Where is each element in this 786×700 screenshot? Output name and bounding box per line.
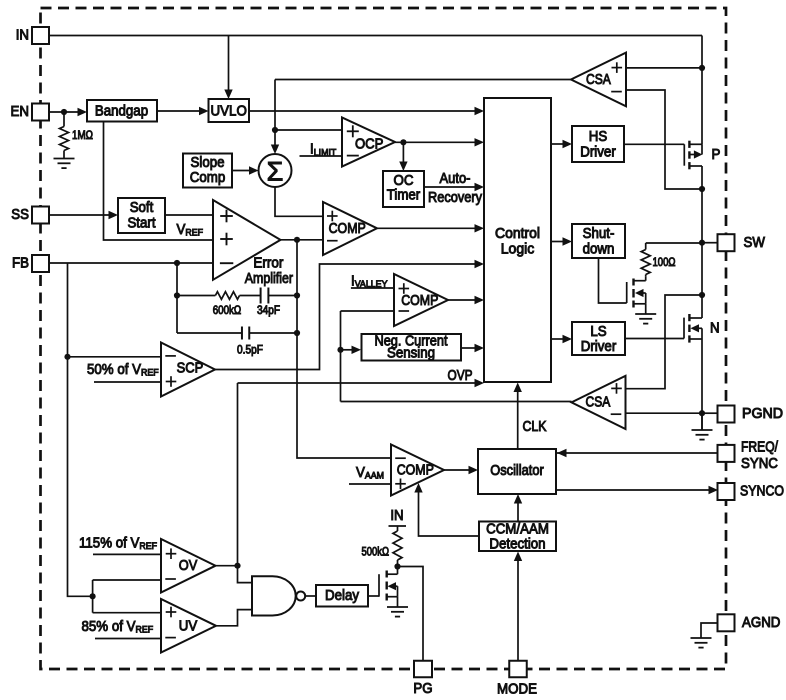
svg-text:LIMIT: LIMIT bbox=[314, 147, 337, 158]
svg-text:Amplifier: Amplifier bbox=[245, 271, 293, 287]
svg-text:AGND: AGND bbox=[742, 615, 780, 631]
svg-text:Start: Start bbox=[127, 215, 155, 231]
svg-text:REF: REF bbox=[139, 541, 157, 552]
svg-text:Timer: Timer bbox=[387, 188, 421, 204]
svg-text:down: down bbox=[583, 241, 615, 257]
svg-text:COMP: COMP bbox=[329, 221, 366, 237]
svg-text:Auto-: Auto- bbox=[440, 171, 471, 187]
svg-text:MODE: MODE bbox=[497, 682, 537, 698]
svg-text:Bandgap: Bandgap bbox=[95, 103, 148, 119]
svg-text:PGND: PGND bbox=[742, 406, 783, 422]
svg-text:SCP: SCP bbox=[177, 361, 204, 377]
svg-text:LS: LS bbox=[590, 324, 606, 340]
svg-text:SYNC: SYNC bbox=[741, 456, 778, 472]
svg-text:Recovery: Recovery bbox=[428, 190, 483, 206]
svg-text:CCM/AAM: CCM/AAM bbox=[486, 521, 549, 537]
svg-text:OV: OV bbox=[179, 558, 198, 574]
svg-text:50% of V: 50% of V bbox=[87, 362, 141, 378]
svg-text:Control: Control bbox=[495, 226, 540, 242]
svg-text:HS: HS bbox=[589, 129, 608, 145]
svg-text:Oscillator: Oscillator bbox=[490, 463, 544, 479]
svg-text:SW: SW bbox=[744, 235, 766, 251]
svg-text:Shut-: Shut- bbox=[583, 226, 615, 242]
svg-text:COMP: COMP bbox=[401, 293, 438, 309]
svg-text:REF: REF bbox=[185, 228, 203, 239]
svg-text:CLK: CLK bbox=[523, 419, 547, 435]
svg-text:100Ω: 100Ω bbox=[653, 257, 676, 269]
svg-text:CSA: CSA bbox=[586, 72, 611, 88]
svg-text:AAM: AAM bbox=[365, 471, 384, 482]
svg-text:34pF: 34pF bbox=[257, 305, 280, 317]
svg-text:Comp: Comp bbox=[190, 170, 226, 186]
svg-text:VALLEY: VALLEY bbox=[355, 279, 388, 290]
svg-text:115% of V: 115% of V bbox=[79, 536, 140, 552]
svg-text:Error: Error bbox=[253, 255, 283, 271]
svg-text:Detection: Detection bbox=[489, 537, 545, 553]
svg-text:SS: SS bbox=[11, 207, 29, 223]
svg-text:600kΩ: 600kΩ bbox=[213, 305, 242, 317]
svg-text:Σ: Σ bbox=[267, 157, 284, 187]
svg-text:PG: PG bbox=[413, 681, 432, 697]
svg-text:UV: UV bbox=[179, 618, 198, 634]
svg-text:0.5pF: 0.5pF bbox=[237, 345, 263, 357]
svg-text:OC: OC bbox=[394, 173, 414, 189]
svg-text:UVLO: UVLO bbox=[211, 103, 247, 119]
svg-text:IN: IN bbox=[390, 508, 403, 524]
svg-text:P: P bbox=[712, 147, 721, 163]
svg-text:REF: REF bbox=[141, 368, 159, 379]
svg-text:EN: EN bbox=[11, 104, 30, 120]
svg-text:Sensing: Sensing bbox=[387, 346, 435, 362]
svg-text:FREQ/: FREQ/ bbox=[741, 440, 778, 456]
svg-text:FB: FB bbox=[12, 256, 29, 272]
svg-text:SYNCO: SYNCO bbox=[740, 484, 784, 500]
svg-text:Driver: Driver bbox=[580, 144, 616, 160]
svg-text:OVP: OVP bbox=[448, 368, 473, 384]
svg-text:Driver: Driver bbox=[581, 339, 617, 355]
svg-text:Logic: Logic bbox=[501, 242, 535, 258]
svg-text:Soft: Soft bbox=[130, 200, 154, 216]
svg-text:85% of V: 85% of V bbox=[82, 619, 136, 635]
svg-text:N: N bbox=[710, 321, 720, 337]
svg-text:500kΩ: 500kΩ bbox=[362, 547, 390, 559]
svg-text:Slope: Slope bbox=[191, 155, 225, 171]
svg-text:1MΩ: 1MΩ bbox=[72, 130, 93, 142]
svg-text:COMP: COMP bbox=[397, 463, 434, 479]
svg-text:OCP: OCP bbox=[355, 137, 384, 153]
svg-text:CSA: CSA bbox=[586, 395, 611, 411]
svg-text:IN: IN bbox=[16, 28, 29, 44]
svg-text:REF: REF bbox=[135, 625, 153, 636]
svg-text:Delay: Delay bbox=[325, 588, 360, 604]
